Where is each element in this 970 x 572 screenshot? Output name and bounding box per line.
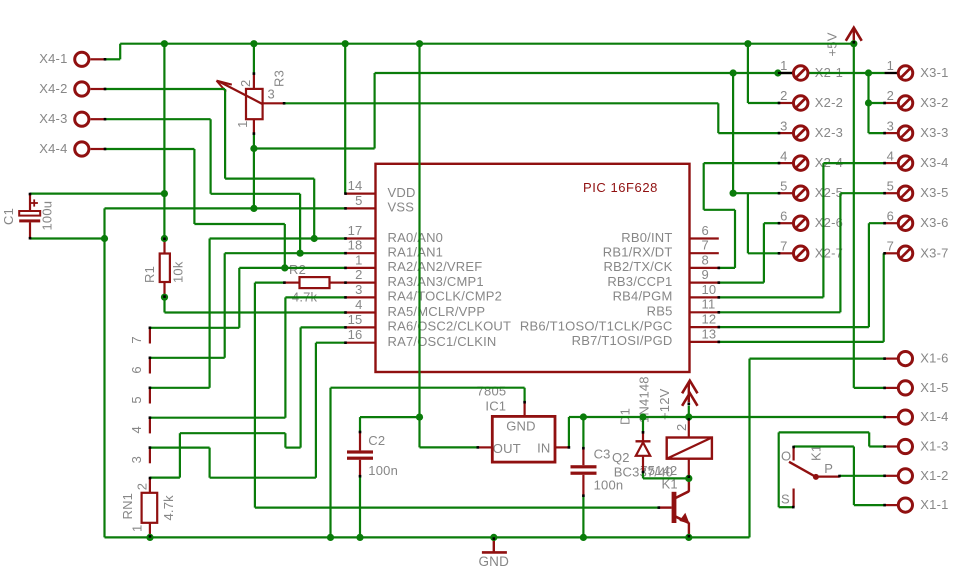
svg-text:5: 5: [129, 396, 144, 403]
svg-text:3: 3: [268, 87, 275, 102]
svg-text:X3-1: X3-1: [920, 65, 948, 80]
svg-text:15: 15: [348, 312, 363, 327]
svg-text:5: 5: [887, 178, 894, 193]
svg-text:RB6/T1OSO/T1CLK/PGC: RB6/T1OSO/T1CLK/PGC: [520, 318, 673, 333]
svg-text:X1-6: X1-6: [920, 351, 948, 366]
svg-text:5: 5: [355, 193, 362, 208]
svg-text:C2: C2: [368, 433, 385, 448]
svg-text:X3-5: X3-5: [920, 185, 948, 200]
svg-text:17: 17: [348, 223, 363, 238]
svg-text:18: 18: [348, 238, 363, 253]
svg-text:X2-3: X2-3: [815, 125, 843, 140]
svg-text:X3-7: X3-7: [920, 245, 948, 260]
svg-text:R1: R1: [142, 266, 157, 283]
svg-text:GND: GND: [478, 554, 509, 569]
svg-text:7805: 7805: [477, 384, 507, 399]
svg-text:6: 6: [129, 366, 144, 373]
svg-text:4: 4: [129, 426, 144, 433]
svg-text:8: 8: [702, 252, 709, 267]
svg-text:X4-2: X4-2: [39, 81, 67, 96]
svg-text:2: 2: [780, 88, 787, 103]
svg-text:R3: R3: [272, 70, 287, 87]
svg-text:1: 1: [355, 252, 362, 267]
svg-text:10: 10: [702, 282, 717, 297]
svg-text:7: 7: [129, 336, 144, 343]
svg-text:4: 4: [887, 148, 894, 163]
svg-text:X2-7: X2-7: [815, 245, 843, 260]
svg-text:100u: 100u: [40, 201, 55, 231]
svg-text:X3-3: X3-3: [920, 125, 948, 140]
svg-text:X4-3: X4-3: [39, 111, 67, 126]
svg-text:2: 2: [238, 80, 253, 87]
svg-text:2: 2: [135, 483, 150, 490]
svg-text:X1-4: X1-4: [920, 409, 948, 424]
svg-text:100n: 100n: [368, 463, 398, 478]
svg-text:6: 6: [887, 208, 894, 223]
svg-text:C1: C1: [1, 208, 16, 225]
svg-text:X1-2: X1-2: [920, 468, 948, 483]
svg-text:13: 13: [702, 326, 717, 341]
svg-text:X2-5: X2-5: [815, 185, 843, 200]
svg-text:PIC 16F628: PIC 16F628: [583, 180, 658, 195]
svg-text:7: 7: [780, 239, 787, 254]
svg-text:OUT: OUT: [493, 441, 521, 456]
svg-text:R2: R2: [289, 262, 306, 277]
svg-text:RA6/OSC2/CLKOUT: RA6/OSC2/CLKOUT: [388, 319, 512, 334]
svg-text:RB4/PGM: RB4/PGM: [613, 289, 673, 304]
svg-text:RB0/INT: RB0/INT: [621, 230, 672, 245]
svg-text:RA2/AN2/VREF: RA2/AN2/VREF: [388, 259, 483, 274]
svg-text:9: 9: [702, 267, 709, 282]
svg-text:X3-6: X3-6: [920, 215, 948, 230]
svg-text:100n: 100n: [594, 477, 624, 492]
svg-text:1: 1: [780, 58, 787, 73]
svg-text:X4-4: X4-4: [39, 141, 67, 156]
svg-text:RB3/CCP1: RB3/CCP1: [607, 274, 672, 289]
svg-text:GND: GND: [506, 418, 536, 433]
svg-text:4: 4: [355, 297, 362, 312]
svg-text:4: 4: [780, 148, 787, 163]
svg-text:X1-3: X1-3: [920, 439, 948, 454]
svg-text:RB5: RB5: [647, 304, 673, 319]
svg-text:2: 2: [674, 424, 689, 431]
svg-text:X4-1: X4-1: [39, 51, 67, 66]
svg-text:4.7k: 4.7k: [161, 495, 176, 521]
svg-text:S: S: [781, 492, 790, 507]
svg-text:7: 7: [887, 239, 894, 254]
svg-text:X2-2: X2-2: [815, 95, 843, 110]
svg-text:2: 2: [887, 88, 894, 103]
svg-text:3: 3: [355, 282, 362, 297]
svg-text:X1-5: X1-5: [920, 380, 948, 395]
svg-text:Q2: Q2: [612, 450, 630, 465]
svg-text:+12V: +12V: [657, 388, 672, 420]
svg-text:RA4/TOCLK/CMP2: RA4/TOCLK/CMP2: [388, 289, 503, 304]
svg-text:3: 3: [887, 118, 894, 133]
svg-text:X3-4: X3-4: [920, 155, 948, 170]
svg-text:IC1: IC1: [485, 399, 506, 414]
svg-text:16: 16: [348, 327, 363, 342]
svg-text:RB2/TX/CK: RB2/TX/CK: [604, 259, 673, 274]
svg-text:C3: C3: [594, 447, 611, 462]
svg-text:10k: 10k: [171, 261, 186, 283]
svg-text:3: 3: [780, 118, 787, 133]
svg-text:P: P: [824, 461, 833, 476]
svg-text:VDD: VDD: [388, 185, 416, 200]
svg-text:2: 2: [355, 267, 362, 282]
svg-text:6: 6: [702, 223, 709, 238]
svg-text:6: 6: [780, 208, 787, 223]
svg-text:RA1/AN1: RA1/AN1: [388, 245, 444, 260]
svg-text:3: 3: [129, 456, 144, 463]
svg-text:12: 12: [702, 312, 717, 327]
svg-text:1: 1: [887, 58, 894, 73]
svg-text:IN: IN: [537, 440, 550, 455]
svg-text:7: 7: [702, 238, 709, 253]
svg-text:RA3/AN3/CMP1: RA3/AN3/CMP1: [388, 274, 484, 289]
svg-text:1: 1: [235, 120, 250, 127]
svg-text:1: 1: [130, 525, 145, 532]
svg-text:RA0/AN0: RA0/AN0: [388, 230, 444, 245]
svg-text:11: 11: [702, 297, 716, 312]
svg-text:5: 5: [780, 178, 787, 193]
svg-text:RB7/T1OSI/PGD: RB7/T1OSI/PGD: [572, 333, 673, 348]
svg-text:X2-6: X2-6: [815, 215, 843, 230]
svg-text:RA7/OSC1/CLKIN: RA7/OSC1/CLKIN: [388, 334, 497, 349]
svg-text:RN1: RN1: [120, 493, 135, 520]
svg-text:VSS: VSS: [388, 200, 415, 215]
svg-text:14: 14: [348, 178, 363, 193]
svg-text:X3-2: X3-2: [920, 95, 948, 110]
svg-text:X1-1: X1-1: [920, 497, 948, 512]
svg-text:RA5/MCLR/VPP: RA5/MCLR/VPP: [388, 304, 486, 319]
svg-text:RB1/RX/DT: RB1/RX/DT: [603, 245, 673, 260]
